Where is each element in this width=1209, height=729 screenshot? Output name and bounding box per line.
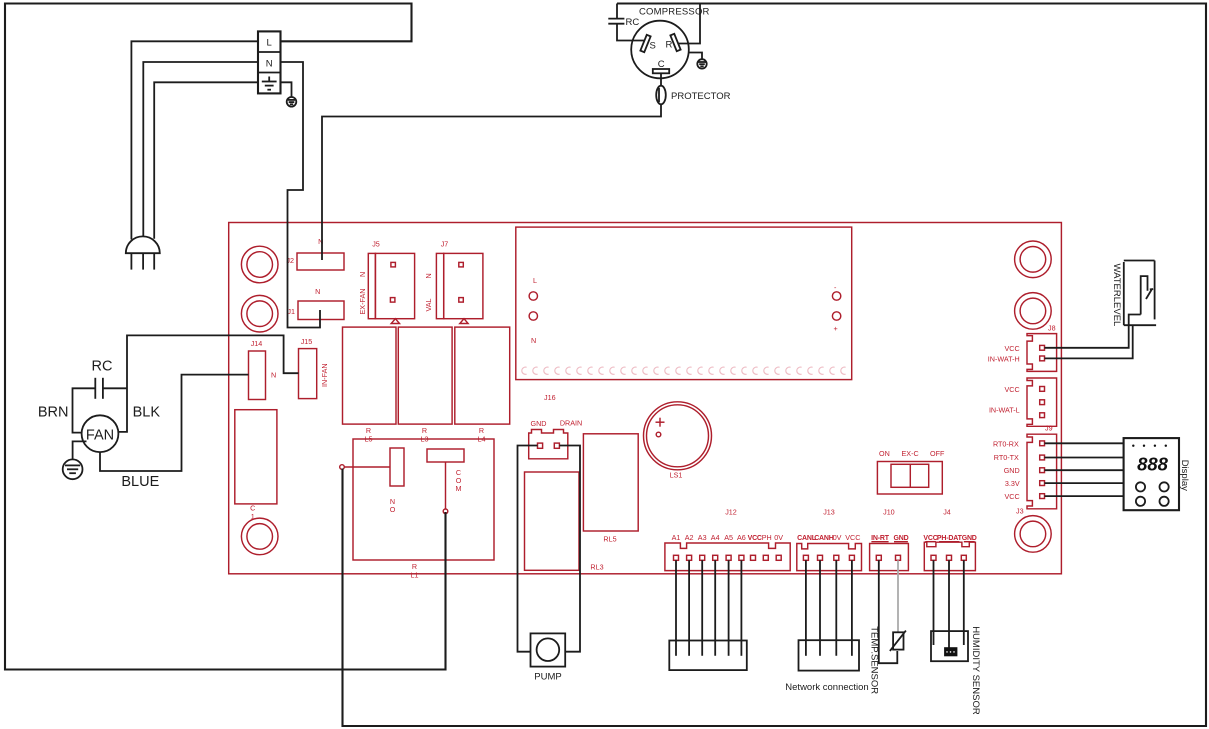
wire J13 CANH [819, 560, 821, 656]
pump PUMP [531, 633, 566, 682]
switch ON EX-C OFF [877, 449, 945, 494]
relay R L3 [398, 327, 452, 443]
svg-text:0V: 0V [774, 533, 783, 542]
wire J12 A4 [714, 560, 716, 656]
svg-text:J12: J12 [725, 508, 737, 517]
wire J16 DRAIN to pump [559, 446, 580, 652]
display module Display [1124, 438, 1190, 510]
svg-text:VCC: VCC [845, 533, 860, 542]
wire J8 VCC to water level [1045, 315, 1141, 348]
connector J1 [287, 287, 344, 320]
svg-text:N: N [424, 273, 433, 278]
compressor COMPRESSOR [631, 7, 709, 79]
svg-text:BLUE: BLUE [121, 474, 159, 490]
ground (terminal block PE) [281, 82, 297, 106]
svg-text:GND: GND [1004, 466, 1020, 475]
svg-text:N: N [266, 58, 273, 69]
wire L loop (terminal L to relay COM via frame) [5, 4, 446, 670]
svg-text:PH: PH [762, 533, 772, 542]
svg-text:N: N [271, 371, 276, 380]
svg-text:888: 888 [1137, 454, 1169, 475]
svg-text:VCC: VCC [1005, 492, 1020, 501]
wire compressor cap branch [616, 4, 618, 19]
wire J4 GND [963, 560, 965, 645]
svg-text:ON: ON [879, 449, 890, 458]
ground (fan) [63, 441, 87, 479]
relay R L5 [343, 327, 397, 443]
wire J13 VCC [851, 560, 853, 656]
svg-text:J1: J1 [287, 307, 295, 316]
wire protector to J2 [322, 104, 661, 260]
svg-text:GND: GND [531, 419, 547, 428]
connector J8 [988, 324, 1057, 372]
svg-text:R: R [666, 40, 673, 51]
wire N right to J1 [281, 62, 321, 328]
svg-text:S: S [650, 41, 656, 52]
svg-text:IN-WAT-H: IN-WAT-H [988, 354, 1020, 363]
svg-text:BLK: BLK [133, 405, 161, 421]
svg-text:3.3V: 3.3V [1005, 479, 1020, 488]
power supply module [516, 227, 852, 380]
node COM terminal [443, 462, 448, 514]
svg-text:RT0-TX: RT0-TX [994, 453, 1019, 462]
power plug [126, 236, 160, 269]
svg-text:J15: J15 [301, 337, 313, 346]
svg-text:RL5: RL5 [603, 535, 616, 544]
terminal block L N PE [258, 31, 281, 93]
wire BLUE [100, 375, 249, 490]
svg-text:0V: 0V [833, 533, 842, 542]
wire J3 3.3V to display [1045, 482, 1124, 484]
wire BLK [103, 335, 299, 432]
svg-text:RC: RC [626, 17, 640, 28]
wire J4 VCC [933, 560, 935, 645]
board outline [229, 223, 1062, 574]
svg-text:L: L [267, 38, 272, 49]
wire BRN [38, 388, 95, 432]
svg-text:TEMP.SENSOR: TEMP.SENSOR [869, 626, 880, 694]
svg-text:A1: A1 [672, 533, 681, 542]
wire J13 CANL [805, 560, 807, 656]
wire PE to plug [154, 82, 258, 239]
connector J4 [923, 508, 976, 571]
relay contact RL5 [583, 434, 638, 544]
svg-text:GND: GND [962, 535, 977, 542]
svg-text:L1: L1 [411, 571, 419, 580]
svg-text:VCC: VCC [1005, 385, 1020, 394]
mounting hole top-right 2 [1015, 293, 1052, 330]
svg-text:A5: A5 [724, 533, 733, 542]
svg-text:J16: J16 [544, 393, 556, 402]
svg-text:O: O [390, 505, 396, 514]
svg-text:IN-FAN: IN-FAN [320, 363, 329, 387]
wire J8 IN-WAT-H to water level [1045, 325, 1133, 358]
connector J5 [358, 240, 415, 324]
svg-text:EX-C: EX-C [902, 449, 919, 458]
wire cap to S [617, 24, 644, 41]
svg-text:CANH: CANH [814, 535, 834, 542]
wire J4 PH-DAT [948, 560, 950, 648]
connector J14 [249, 339, 277, 400]
protector [656, 73, 730, 104]
capacitor C1 [235, 410, 277, 521]
connector J15 [299, 337, 330, 399]
wire J3 RT0-RX to display [1045, 442, 1124, 444]
svg-text:J14: J14 [251, 339, 263, 348]
mounting hole bottom-right [1015, 516, 1052, 553]
connector J12 [665, 508, 790, 571]
capacitor RC (fan) [92, 359, 113, 399]
svg-text:1: 1 [251, 512, 255, 521]
svg-text:RL3: RL3 [590, 563, 603, 572]
svg-text:M: M [456, 484, 462, 493]
svg-text:J9: J9 [1045, 424, 1053, 433]
svg-text:J8: J8 [1048, 324, 1056, 333]
wire J13 0V [835, 560, 837, 656]
block Network connection [785, 640, 868, 693]
wire J3 VCC to display [1045, 495, 1124, 497]
connector J3 [993, 434, 1057, 515]
mounting hole bottom-left [241, 518, 278, 555]
wire J10 GND to thermistor (gray) [897, 560, 899, 632]
svg-text:HUMIDITY SENSOR: HUMIDITY SENSOR [970, 626, 981, 715]
svg-text:RC: RC [92, 359, 113, 375]
wire N to plug [143, 62, 258, 237]
mounting hole top-right 1 [1015, 241, 1052, 278]
svg-text:DRAIN: DRAIN [560, 419, 582, 428]
capacitor RC (compressor) [608, 17, 639, 28]
svg-text:VAL: VAL [424, 298, 433, 311]
mounting hole top-left 1 [241, 246, 278, 283]
svg-text:N: N [315, 287, 320, 296]
water level switch WATERLEVEL [1111, 261, 1156, 327]
wire J10 IN-RT to thermistor [879, 560, 898, 663]
humidity sensor HUMIDITY SENSOR [931, 626, 981, 715]
svg-text:LS1: LS1 [670, 471, 683, 480]
svg-text:J10: J10 [883, 508, 895, 517]
svg-text:A4: A4 [711, 533, 720, 542]
thermistor TEMP.SENSOR [869, 626, 906, 694]
wire J3 GND to display [1045, 469, 1124, 471]
svg-text:GND: GND [894, 535, 909, 542]
svg-text:N: N [358, 272, 367, 277]
svg-text:VCC: VCC [923, 535, 937, 542]
connector J2 [286, 237, 344, 270]
wire J12 A5 [728, 560, 730, 656]
svg-text:PUMP: PUMP [534, 672, 561, 683]
svg-text:IN-RT: IN-RT [871, 535, 890, 542]
svg-text:J13: J13 [823, 508, 835, 517]
connector J7 [424, 240, 483, 324]
wire L to plug [131, 41, 258, 239]
svg-text:PROTECTOR: PROTECTOR [671, 91, 731, 102]
node NO terminal [340, 465, 390, 470]
wire J12 A6 [740, 560, 742, 656]
wire J12 A3 [701, 560, 703, 656]
wire compressor R loop (top edge, right edge, bottom to relay NO) [343, 4, 1207, 727]
relay R L1 [353, 439, 494, 580]
wire J16 GND to pump [518, 446, 538, 652]
wire J3 RT0-TX to display [1045, 457, 1124, 459]
svg-text:VCC: VCC [1005, 344, 1020, 353]
relay contact RL3 [525, 472, 604, 572]
connector J10 [870, 508, 909, 571]
svg-text:Display: Display [1179, 460, 1190, 491]
wire J12 A2 [688, 560, 690, 656]
svg-text:A2: A2 [685, 533, 694, 542]
capacitor LS1 [644, 402, 712, 480]
svg-text:A3: A3 [698, 533, 707, 542]
svg-text:COMPRESSOR: COMPRESSOR [639, 7, 710, 18]
svg-text:VCC: VCC [748, 535, 762, 542]
svg-text:J4: J4 [943, 508, 951, 517]
svg-text:WATERLEVEL: WATERLEVEL [1111, 264, 1122, 327]
svg-text:C: C [658, 59, 665, 70]
svg-text:FAN: FAN [86, 428, 114, 444]
svg-text:Network connection: Network connection [785, 682, 868, 693]
svg-text:PH-DAT: PH-DAT [937, 535, 963, 542]
svg-text:OFF: OFF [930, 449, 945, 458]
svg-text:J3: J3 [1016, 507, 1024, 516]
svg-text:A6: A6 [737, 533, 746, 542]
connector J13 [797, 508, 862, 571]
svg-text:J7: J7 [441, 240, 449, 249]
connector J9 [989, 378, 1057, 433]
svg-text:N: N [531, 336, 536, 345]
block on J12 harness [669, 641, 747, 671]
wire compressor R stub [679, 4, 701, 44]
svg-text:+: + [834, 324, 838, 333]
relay R L4 [455, 327, 510, 443]
ground (compressor) [689, 53, 707, 69]
svg-text:EX-FAN: EX-FAN [358, 289, 367, 315]
svg-text:IN-WAT-L: IN-WAT-L [989, 406, 1020, 415]
svg-text:J5: J5 [372, 240, 380, 249]
connector J16 [529, 393, 582, 459]
svg-text:BRN: BRN [38, 405, 69, 421]
mounting hole top-left 2 [241, 295, 278, 332]
wire J12 A1 [675, 560, 677, 656]
power supply hatch band [522, 367, 846, 374]
svg-text:L: L [533, 276, 537, 285]
svg-text:RT0-RX: RT0-RX [993, 439, 1019, 448]
fan motor FAN [82, 415, 119, 452]
